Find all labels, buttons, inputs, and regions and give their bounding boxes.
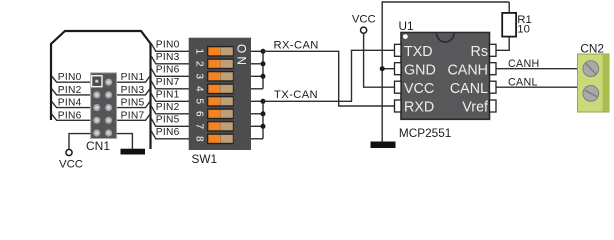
svg-text:Vref: Vref bbox=[462, 100, 488, 116]
svg-text:8: 8 bbox=[194, 136, 205, 142]
svg-text:PIN2: PIN2 bbox=[156, 102, 180, 113]
node PIN1 (SW1 row 5) bbox=[151, 90, 189, 102]
svg-text:PIN2: PIN2 bbox=[58, 85, 82, 96]
svg-text:PIN7: PIN7 bbox=[156, 77, 180, 88]
svg-text:PIN3: PIN3 bbox=[121, 85, 145, 96]
pin 3 VCC bbox=[395, 81, 402, 93]
node PIN4 (CN1 left) bbox=[52, 98, 91, 109]
svg-text:CANL: CANL bbox=[508, 76, 538, 88]
header bundle outline bbox=[51, 31, 151, 149]
ground (U1) bbox=[371, 142, 396, 149]
pin 2 GND bbox=[395, 63, 402, 75]
svg-text:PIN7: PIN7 bbox=[121, 110, 145, 121]
svg-text:GND: GND bbox=[404, 62, 436, 78]
power VCC (top) bbox=[352, 13, 376, 33]
svg-text:4: 4 bbox=[194, 86, 205, 92]
svg-text:TX-CAN: TX-CAN bbox=[274, 89, 318, 101]
connector CN2 bbox=[578, 41, 610, 112]
pin 6 CANL bbox=[490, 81, 497, 93]
junction dots TX bus bbox=[261, 99, 266, 104]
pin 1 TXD bbox=[395, 44, 402, 56]
svg-text:PIN3: PIN3 bbox=[156, 52, 180, 63]
wire CN1 to ground bbox=[117, 134, 133, 149]
svg-text:PIN4: PIN4 bbox=[58, 98, 82, 109]
net CANH bbox=[496, 58, 578, 70]
ground (CN1) bbox=[121, 149, 146, 155]
wire VCC to U1 VCC pin bbox=[364, 33, 395, 87]
net TX-CAN bbox=[263, 50, 395, 101]
svg-text:PIN6: PIN6 bbox=[156, 127, 180, 138]
node PIN6 (CN1 left) bbox=[52, 110, 91, 121]
svg-text:CN1: CN1 bbox=[86, 139, 110, 153]
node PIN0 (CN1 left) bbox=[52, 72, 91, 83]
node PIN6 (SW1 row 3) bbox=[151, 65, 189, 77]
resistor R1 bbox=[496, 2, 532, 50]
wire CN1 to VCC bbox=[69, 134, 91, 150]
wire TX bus rows 5-8 bbox=[262, 101, 264, 139]
svg-text:Rs: Rs bbox=[471, 44, 488, 60]
svg-text:3: 3 bbox=[194, 74, 205, 80]
svg-text:VCC: VCC bbox=[352, 13, 376, 25]
svg-text:CANL: CANL bbox=[450, 81, 488, 97]
pin 8 Rs bbox=[490, 44, 497, 56]
svg-text:PIN1: PIN1 bbox=[121, 72, 145, 83]
svg-text:10: 10 bbox=[517, 24, 530, 36]
DIP switch SW1 bbox=[189, 38, 251, 166]
pin 5 Vref bbox=[490, 100, 497, 112]
node PIN5 (SW1 row 7) bbox=[151, 115, 189, 127]
svg-text:RXD: RXD bbox=[404, 100, 434, 116]
node PIN1 (CN1 right) bbox=[117, 72, 150, 83]
svg-text:PIN0: PIN0 bbox=[156, 40, 180, 51]
node PIN0 (SW1 row 1) bbox=[151, 40, 189, 52]
svg-text:PIN0: PIN0 bbox=[58, 72, 82, 83]
net RX-CAN bbox=[263, 39, 395, 106]
svg-text:ON: ON bbox=[234, 44, 248, 68]
pin 4 RXD bbox=[395, 100, 402, 112]
power VCC (bottom left) bbox=[59, 149, 83, 170]
svg-text:PIN6: PIN6 bbox=[156, 65, 180, 76]
svg-text:CANH: CANH bbox=[447, 62, 488, 78]
wire GND net bbox=[382, 2, 509, 142]
svg-text:1: 1 bbox=[194, 49, 205, 55]
svg-text:VCC: VCC bbox=[59, 159, 83, 171]
node PIN7 (CN1 right) bbox=[117, 110, 150, 121]
svg-text:PIN5: PIN5 bbox=[121, 98, 145, 109]
svg-text:7: 7 bbox=[194, 124, 205, 130]
node PIN6 (SW1 row 8) bbox=[151, 127, 189, 139]
svg-text:U1: U1 bbox=[399, 19, 414, 33]
svg-text:PIN5: PIN5 bbox=[156, 115, 180, 126]
node PIN2 (SW1 row 6) bbox=[151, 102, 189, 114]
svg-text:PIN6: PIN6 bbox=[58, 110, 82, 121]
svg-text:PIN1: PIN1 bbox=[156, 90, 180, 101]
wire SW1 pin stubs bbox=[251, 51, 263, 139]
svg-text:RX-CAN: RX-CAN bbox=[274, 39, 319, 51]
svg-text:CANH: CANH bbox=[508, 58, 539, 70]
svg-text:VCC: VCC bbox=[404, 81, 434, 97]
svg-text:5: 5 bbox=[194, 99, 205, 105]
svg-text:6: 6 bbox=[194, 111, 205, 117]
node PIN3 (SW1 row 2) bbox=[151, 52, 189, 64]
connector CN1 bbox=[86, 73, 117, 153]
svg-text:SW1: SW1 bbox=[192, 152, 218, 166]
IC U1 MCP2551 bbox=[399, 19, 490, 140]
junction dot GND bbox=[380, 66, 385, 71]
node PIN3 (CN1 right) bbox=[117, 85, 150, 96]
junction dots RX bus bbox=[261, 49, 266, 54]
node PIN2 (CN1 left) bbox=[52, 85, 91, 96]
svg-text:TXD: TXD bbox=[404, 44, 433, 60]
pin 7 CANH bbox=[490, 63, 497, 75]
svg-text:CN2: CN2 bbox=[580, 41, 604, 55]
svg-text:MCP2551: MCP2551 bbox=[399, 126, 451, 140]
net CANL bbox=[496, 76, 578, 88]
wire RX bus rows 1-4 bbox=[262, 51, 264, 89]
node PIN7 (SW1 row 4) bbox=[151, 77, 189, 89]
node PIN5 (CN1 right) bbox=[117, 98, 150, 109]
svg-text:2: 2 bbox=[194, 61, 205, 67]
